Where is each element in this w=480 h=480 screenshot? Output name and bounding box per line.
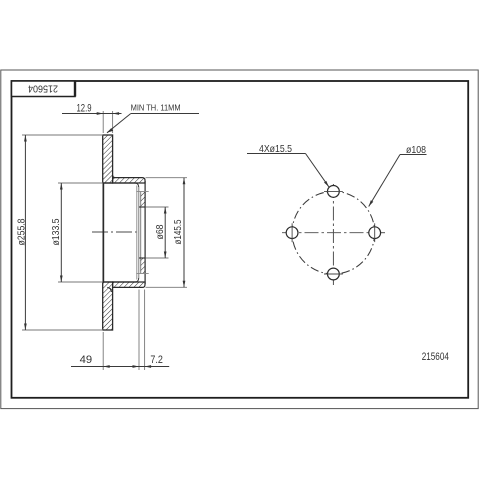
bolt circle Ø108 (dash-dot) [292,191,375,274]
svg-text:ø255.8: ø255.8 [15,218,27,245]
svg-text:MIN TH. 11MM: MIN TH. 11MM [131,102,181,112]
hat wall upper hatched segment [141,192,145,208]
hat mounting wall outer edge [144,181,146,284]
web-wall inner fillet top [135,183,139,187]
leader MIN TH. 11MM [107,102,199,132]
dimension Ø255.8 [15,135,103,330]
right view vertical centerline [332,184,334,285]
svg-text:215604: 215604 [422,351,449,363]
bar-web fillet bottom hook [107,287,111,292]
svg-text:49: 49 [80,354,93,366]
bolt hole left [286,223,298,242]
dimension Ø68 [146,207,169,258]
left view centerline [92,231,139,233]
svg-text:ø68: ø68 [154,224,166,239]
svg-text:ø133.5: ø133.5 [50,218,62,245]
step tick lower [136,273,148,275]
top web of hat [103,178,145,183]
right view horizontal centerline [282,232,385,234]
disc ring lower section (hatched) [103,282,113,330]
bar-web fillet top [113,175,116,177]
svg-text:12.9: 12.9 [77,102,92,114]
hat wall inner silhouette lines [137,186,141,280]
hat wall lower hatched segment [141,258,145,274]
bolt hole right [369,223,381,242]
step tick upper [136,191,148,193]
dimension 49 and 7.2 [71,290,169,371]
bore upper edge [139,206,145,208]
dimension Ø145.5 [146,178,188,288]
bolt hole bottom [324,268,343,280]
web-wall inner fillet bottom [135,278,139,282]
svg-text:7.2: 7.2 [150,354,163,366]
disc friction face silhouette line [102,183,104,282]
inner border frame [12,81,469,398]
disc ring upper section (hatched) [103,135,113,183]
svg-text:ø145.5: ø145.5 [172,219,184,244]
bore lower edge [139,257,145,259]
leader 4XØ15.5 [247,144,329,187]
outer border frame [1,70,478,409]
title box [12,81,76,97]
dimension Ø133.5 [50,183,103,282]
dimension 12.9 [62,102,122,133]
bolt hole top [324,186,343,198]
leader Ø108 [369,145,427,207]
svg-text:215604: 215604 [28,83,58,95]
bottom web of hat [103,282,145,287]
